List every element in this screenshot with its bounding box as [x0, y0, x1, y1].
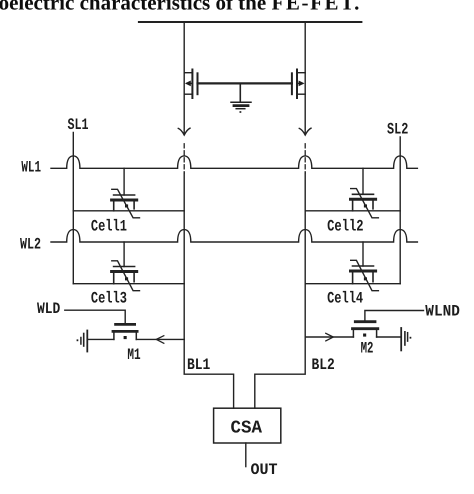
- svg-text:Cell2: Cell2: [327, 218, 363, 236]
- svg-text:SL1: SL1: [68, 116, 89, 134]
- svg-text:Cell4: Cell4: [327, 289, 363, 307]
- svg-text:Cell3: Cell3: [91, 289, 127, 307]
- svg-text:BL1: BL1: [187, 356, 210, 374]
- svg-text:CSA: CSA: [231, 419, 263, 439]
- svg-text:WLD: WLD: [37, 300, 60, 318]
- svg-text:WL2: WL2: [20, 236, 41, 254]
- svg-text:M2: M2: [361, 339, 374, 357]
- svg-text:WLND: WLND: [425, 303, 460, 321]
- svg-text:OUT: OUT: [251, 461, 278, 479]
- svg-text:BL2: BL2: [312, 356, 335, 374]
- svg-text:Cell1: Cell1: [91, 217, 127, 235]
- svg-text:M1: M1: [127, 346, 140, 364]
- svg-text:WL1: WL1: [21, 159, 41, 177]
- svg-text:SL2: SL2: [387, 121, 408, 139]
- svg-text:The ferroelectric characterist: The ferroelectric characteristics of the…: [0, 0, 361, 15]
